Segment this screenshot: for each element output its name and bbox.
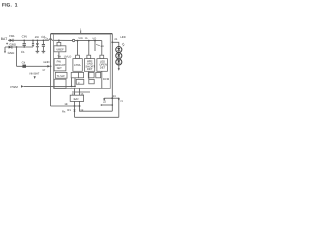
svg-text:23: 23: [113, 95, 117, 98]
component box RT: [70, 95, 83, 101]
capacitor C3 plates: [42, 45, 45, 47]
svg-text:VIN BAT: VIN BAT: [29, 73, 40, 76]
regulator block VREF: [54, 46, 66, 52]
pin circle VIN: [72, 39, 74, 41]
svg-text:24: 24: [101, 44, 105, 48]
emission tick 1: [122, 43, 124, 45]
svg-text:BAT: BAT: [1, 37, 7, 41]
capacitor C1 bottom stub: [23, 45, 25, 47]
thick top rail y=33.6: [51, 33, 113, 35]
junction dot at (16.5,47): [16, 46, 18, 48]
stub x=95: [94, 41, 96, 51]
LED feed wire y=42.3: [112, 42, 119, 68]
svg-text:VIN: VIN: [78, 37, 82, 40]
svg-text:R1: R1: [67, 109, 71, 112]
zener triangle: [36, 43, 39, 46]
junction dot bus/GND feed: [50, 65, 52, 67]
svg-text:Cs: Cs: [45, 37, 49, 41]
svg-text:DCM: DCM: [103, 78, 110, 81]
capacitor C3 lower stub: [42, 46, 44, 51]
wire W1 continuation into IC: [52, 39, 73, 41]
svg-text:GND: GND: [8, 51, 16, 55]
wire bottom y=117: [75, 116, 119, 118]
pin box CTRL: [76, 55, 80, 58]
capacitor C3 stub: [42, 40, 44, 44]
ground tick C3: [42, 51, 46, 52]
junction dot mid: [111, 97, 113, 99]
LED D1: [116, 47, 122, 53]
arrowhead on GND feed: [47, 65, 50, 68]
vertical divider x=101.8 low: [101, 71, 103, 88]
LED D2: [116, 53, 122, 59]
junction dot VREF tap: [58, 40, 60, 42]
wire ground drop x=16.5: [16, 47, 18, 66]
small logic box 2c: [96, 72, 101, 77]
stub RT to rail: [74, 101, 76, 106]
diode D2 on return rail: [9, 46, 12, 49]
wire W2 return rail y=47: [5, 46, 33, 48]
stub link y=105: [101, 104, 112, 106]
zener lower stub: [36, 47, 38, 52]
capacitor C2 between rails at x=33: [32, 40, 34, 43]
wire GND feed y=66: [17, 65, 48, 67]
wire right riser x=118.8: [118, 98, 120, 118]
svg-text:GND: GND: [43, 61, 49, 64]
pin box LED OPEN: [100, 55, 104, 58]
svg-text:22: 22: [103, 101, 107, 104]
svg-text:DET: DET: [87, 68, 93, 71]
wire internal y=92: [72, 91, 90, 93]
svg-text:1: 1: [15, 2, 18, 8]
bottom jog wire y=111: [80, 106, 113, 111]
block A PWM BRIGHT SET: [54, 59, 66, 71]
ground tick ZD1: [36, 51, 40, 52]
svg-text:17: 17: [42, 68, 46, 72]
small logic box 1: [71, 72, 79, 77]
svg-text:VO: VO: [92, 37, 96, 40]
small logic box 3: [76, 79, 84, 84]
plus mark at battery: [6, 43, 8, 45]
svg-text:C4: C4: [22, 60, 26, 64]
block To SW: [55, 72, 67, 78]
arrow dot left: [103, 98, 105, 101]
pin stub bottom x=74.5: [74, 88, 76, 95]
arrowhead PWM: [21, 85, 23, 88]
svg-text:FB1: FB1: [9, 34, 15, 38]
svg-text:GND: GND: [9, 43, 17, 47]
zener diode ZD1 stub: [36, 40, 38, 43]
wire W1 top supply rail y=40: [8, 39, 49, 41]
svg-text:CIN: CIN: [22, 34, 27, 38]
LED D3: [116, 59, 122, 65]
junction dot crossing: [74, 110, 76, 112]
IC block outline U1: [54, 34, 111, 88]
wire PWM y=86.4: [23, 85, 75, 87]
junction dot x=95: [94, 40, 96, 42]
wire hop over bus at x=50: [49, 39, 52, 41]
stub LED OPEN pin x=101.8: [101, 41, 103, 59]
junction dot PWM a: [71, 86, 73, 88]
svg-text:VREF: VREF: [56, 49, 64, 52]
arrow below VIN BAT: [34, 76, 36, 79]
capacitor C4 on GND feed wire: [22, 65, 26, 68]
junction dot PWM b: [74, 86, 76, 88]
stub LED SHORT to logic: [88, 71, 90, 79]
terminal BAT- stub: [4, 47, 6, 52]
svg-text:CTRL: CTRL: [74, 64, 82, 67]
capacitor C1 plates: [23, 44, 26, 46]
wire below rail x=74.5 to y=117: [74, 106, 76, 117]
right return wire x=112.3: [111, 34, 113, 112]
arrow dot right: [118, 98, 120, 101]
svg-text:18: 18: [64, 103, 68, 106]
emission tick 2: [123, 45, 125, 47]
junction dot 105: [112, 104, 114, 106]
svg-text:19: 19: [80, 109, 84, 112]
stub small box1 to PWM wire: [71, 78, 73, 87]
junction dot C1 bottom: [23, 46, 25, 48]
pin stub bottom x=79.5: [79, 88, 81, 95]
block LED OPEN DET: [97, 59, 108, 72]
arrowhead BAT-: [4, 51, 6, 53]
ground bus vertical x=50.5: [50, 34, 52, 106]
arrowhead below rail on x=74.5: [74, 109, 76, 111]
svg-text:SET: SET: [57, 67, 63, 70]
diode D1 on supply rail: [10, 39, 13, 42]
svg-text:To SW: To SW: [57, 75, 65, 78]
capacitor C1 stub from W1: [23, 40, 25, 43]
svg-text:C1: C1: [21, 50, 25, 54]
small logic box 2: [79, 72, 84, 77]
block LED SHORT DET: [84, 59, 94, 72]
small logic box 4: [89, 79, 94, 83]
svg-text:BAT: BAT: [74, 97, 80, 101]
pin box above VREF: [57, 42, 61, 45]
wire internal VDD rail y=40.6: [75, 40, 102, 42]
svg-text:UVLO: UVLO: [64, 56, 72, 59]
stub LED SHORT pin x=88.8: [88, 41, 90, 59]
svg-text:DET: DET: [100, 67, 106, 70]
zener bar: [36, 46, 39, 48]
arrowhead chain continue: [118, 68, 120, 71]
svg-text:PWM: PWM: [10, 85, 18, 89]
block C driver: [54, 79, 66, 88]
stub CTRL pin x=77.5: [77, 41, 79, 59]
svg-text:21: 21: [114, 38, 118, 41]
svg-text:LED: LED: [120, 36, 125, 39]
stub small box1b to PWM wire: [74, 78, 76, 87]
stub to regulator: [58, 40, 60, 45]
junction dots on rail: [74, 105, 76, 107]
stub regulator to block A: [58, 52, 60, 59]
block CTRL: [73, 59, 82, 72]
wire sense link y=98.2: [104, 97, 119, 99]
reference tick numeral 1 on top rail: [80, 31, 82, 34]
pin box LED SHORT: [87, 55, 91, 58]
svg-text:TH: TH: [57, 56, 61, 59]
bottom rail y=106: [51, 105, 81, 107]
svg-text:FIG.: FIG.: [2, 2, 12, 8]
small logic box 2b: [88, 72, 94, 77]
junction dot C1 top: [23, 39, 25, 41]
junction dot feed: [111, 41, 113, 43]
